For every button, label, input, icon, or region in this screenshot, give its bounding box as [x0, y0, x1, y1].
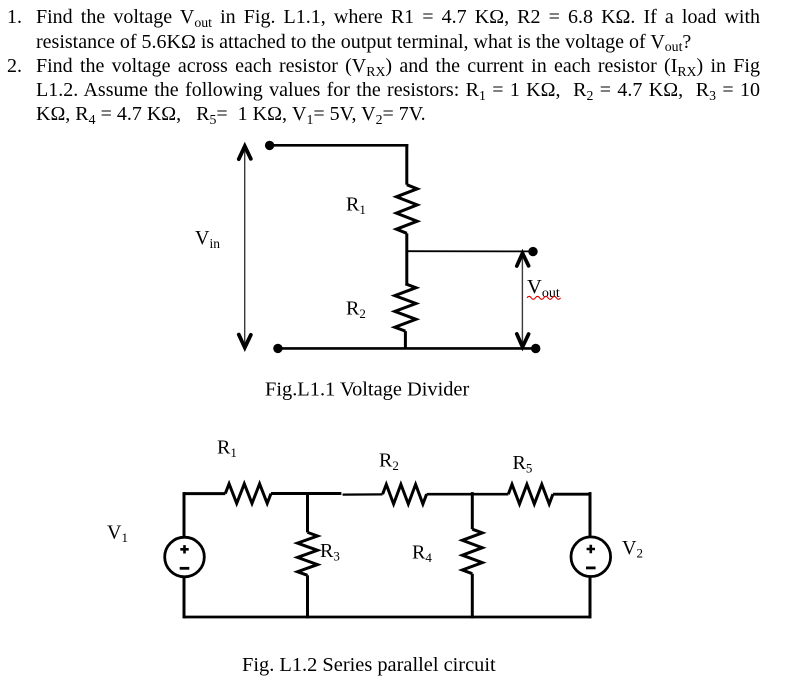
svg-text:V2: V2: [622, 537, 643, 561]
svg-text:R4: R4: [412, 541, 432, 565]
wire: bottom horizontal: [278, 347, 535, 350]
resistor R1 (fig1): [396, 185, 417, 234]
wire: R4 branch bottom lead: [471, 574, 474, 619]
svg-text:R1: R1: [217, 436, 237, 460]
svg-text:Fig. L1.2 Series parallel circ: Fig. L1.2 Series parallel circuit: [242, 654, 496, 676]
svg-text:Vout: Vout: [527, 276, 560, 301]
svg-text:Fig.L1.1 Voltage Divider: Fig.L1.1 Voltage Divider: [265, 379, 469, 401]
node: bottom-left terminal: [273, 344, 282, 353]
wire: left vertical from top wire down to V1: [183, 492, 186, 537]
spellcheck squiggle under Vout label: [527, 296, 561, 299]
svg-text:R3: R3: [320, 540, 340, 564]
wire: top left segment from V1 branch to R1: [184, 492, 225, 495]
svg-text:R1: R1: [346, 194, 366, 218]
node: top-left input terminal: [265, 141, 274, 150]
wire: right vertical from top wire down to V2: [589, 492, 592, 537]
wire: top horizontal: [269, 144, 408, 147]
resistor R2 (fig2): [383, 484, 427, 504]
node: Vout top terminal: [528, 247, 537, 256]
wire: top segment R1 to R3 junction (upper overlap): [271, 492, 341, 495]
wire: bottom horizontal: [184, 616, 590, 619]
wire: R4 branch top lead: [471, 492, 474, 529]
wire: R3 branch bottom lead: [306, 575, 309, 618]
svg-text:R2: R2: [346, 298, 366, 322]
svg-text:R2: R2: [379, 449, 399, 473]
wire: V1 bottom lead to bottom wire: [183, 577, 186, 619]
svg-text:R5: R5: [513, 452, 533, 476]
wire: V2 bottom lead to bottom wire: [589, 577, 592, 619]
node: Vout bottom terminal: [531, 344, 540, 353]
wire: top segment R2 to R5 through R4 junction: [427, 493, 509, 496]
Vout measurement arrow (double headed): [517, 253, 529, 347]
Vin measurement arrow (double headed): [239, 146, 251, 347]
wire: top right segment R5 to V2 branch: [553, 493, 590, 496]
wire: R3 branch top lead: [306, 492, 309, 532]
resistor R4 (fig2): [462, 529, 482, 574]
wire: output tap horizontal: [407, 250, 532, 252]
svg-text:Vin: Vin: [195, 227, 220, 251]
wire: R1 bottom to R2 top through tap junction: [405, 233, 408, 283]
voltage source V2: [571, 537, 611, 577]
resistor R3 (fig2): [298, 532, 318, 575]
svg-text:V1: V1: [107, 521, 128, 545]
wire: R2 bottom lead: [404, 331, 407, 348]
wire: top segment R3 junction to R2 (slightly offset): [343, 493, 383, 495]
resistor R5 (fig2): [508, 484, 553, 504]
wire: top right vertical into R1: [405, 144, 408, 185]
resistor R1 (fig2): [225, 484, 271, 504]
resistor R2 (fig1): [395, 284, 416, 331]
voltage source V1: [165, 537, 205, 577]
body text: [7, 6, 22, 29]
